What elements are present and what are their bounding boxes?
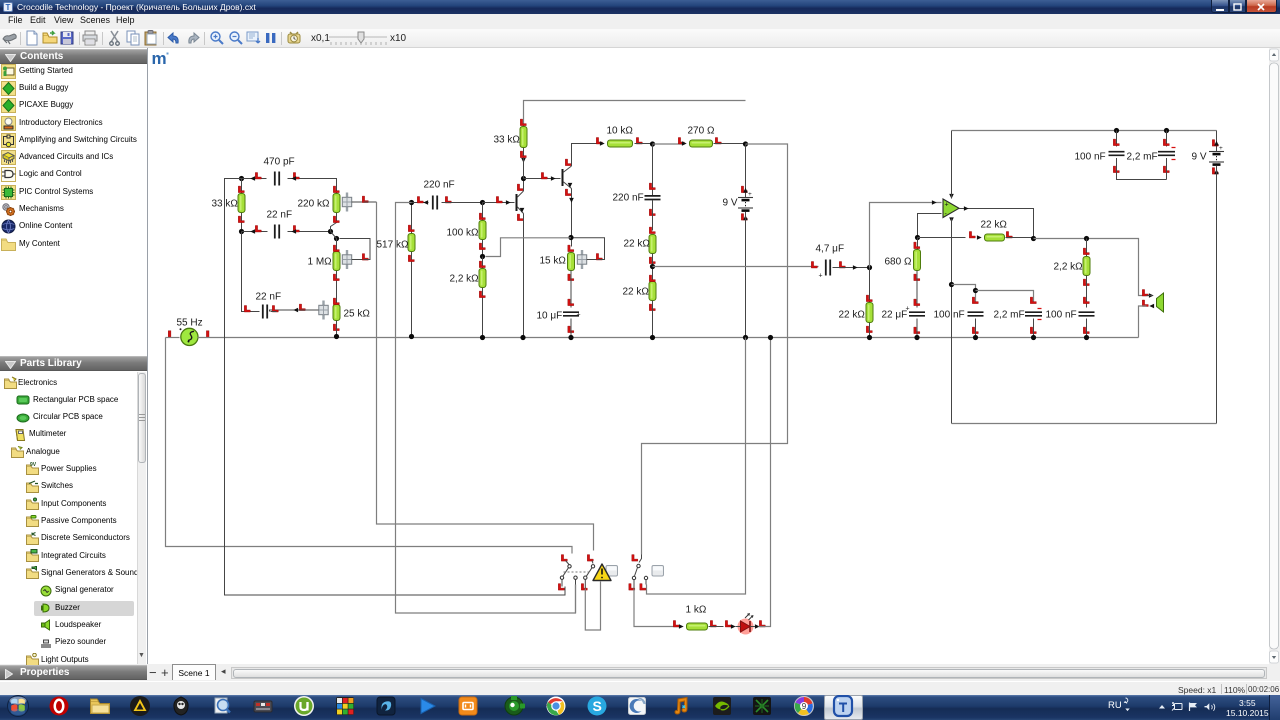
svg-text:22 kΩ: 22 kΩ (623, 287, 650, 298)
wire op-amp output (959, 206, 1034, 238)
label 22 nF (256, 292, 282, 303)
label 2,2 k&#937; (450, 274, 480, 285)
resistor R14 22 k&#937; (866, 268, 873, 341)
node Q (1114, 128, 1119, 133)
wire pot R2 wiper to relay (377, 202, 594, 551)
wire op-amp power bottom (951, 219, 953, 424)
wire mid branch (653, 266, 819, 268)
wire Q2 emitter chain (568, 189, 573, 247)
label 517 k&#937; (377, 240, 409, 251)
resistor R17 2,2 k&#937; (1083, 239, 1090, 308)
resistor R15 22 k&#937; feedback (918, 232, 1034, 242)
svg-text:100 nF: 100 nF (1046, 310, 1077, 321)
label 22 k&#937; (623, 287, 650, 298)
svg-text:33 kΩ: 33 kΩ (494, 135, 521, 146)
resistor R8 33 k&#937; (520, 101, 746, 179)
wire Q2 collector up (572, 144, 597, 167)
label 100 nF (1046, 310, 1077, 321)
svg-text:55 Hz: 55 Hz (177, 318, 203, 329)
label 2,2 mF (994, 310, 1025, 321)
svg-text:220 nF: 220 nF (613, 193, 644, 204)
svg-text:22 kΩ: 22 kΩ (624, 239, 651, 250)
svg-text:9: 9 (802, 702, 807, 711)
wire relay common down (575, 585, 577, 614)
label 220 nF (613, 193, 644, 204)
potentiometer R3 1 M&#937; (333, 239, 370, 305)
wire output to speaker branch (1034, 236, 1147, 296)
relay RL1 (558, 555, 594, 591)
capacitor C10 2,2 mF (1025, 297, 1042, 340)
svg-text:9V: 9V (30, 462, 37, 468)
svg-text:4,7 μF: 4,7 μF (816, 244, 845, 255)
transistor Q2 (563, 159, 573, 196)
node R (1164, 128, 1169, 133)
svg-text:9 V: 9 V (723, 198, 738, 209)
svg-text:517 kΩ: 517 kΩ (377, 240, 409, 251)
battery B1 9 V (738, 144, 753, 338)
capacitor C1 470 pF (242, 172, 337, 192)
label 2,2 k&#937; (1054, 262, 1084, 273)
svg-text:680 Ω: 680 Ω (885, 257, 912, 268)
node G (480, 254, 485, 259)
label 220 k&#937; (298, 199, 330, 210)
label 4,7 &#956;F (816, 244, 845, 255)
resistor R18 1 k&#937; (673, 621, 723, 631)
svg-text:+: + (1219, 145, 1223, 152)
node B (239, 229, 244, 234)
label 1 M&#937; (308, 257, 333, 268)
svg-text:15 kΩ: 15 kΩ (540, 256, 567, 267)
label 25 k&#937; (344, 309, 371, 320)
node K battery bottom rail (743, 335, 748, 340)
svg-text:1 MΩ: 1 MΩ (308, 257, 333, 268)
label 2,2 mF (1127, 152, 1158, 163)
capacitor C3 22 nF (242, 232, 299, 319)
resistor R7 2,2 k&#937; (479, 257, 486, 341)
node D (334, 236, 339, 241)
capacitor C2 22 nF (242, 225, 331, 239)
node H (521, 158, 526, 181)
capacitor C12 100 nF (1109, 131, 1167, 180)
capacitor C13 2,2 mF (1158, 131, 1176, 180)
wire (225, 179, 566, 596)
label 33 k&#937; (212, 199, 239, 210)
svg-text:+: + (819, 273, 823, 280)
wire (166, 337, 180, 339)
wire (653, 143, 685, 145)
wire main ground rail (198, 337, 1139, 339)
label 22 nF (267, 210, 293, 221)
capacitor C5 220 nF (645, 144, 661, 231)
svg-text:22 μF: 22 μF (882, 310, 908, 321)
resistor R5 517 k&#937; (408, 200, 415, 339)
label 22 k&#937; (839, 310, 866, 321)
svg-text:1 kΩ: 1 kΩ (686, 605, 707, 616)
wire base Q2 (524, 173, 561, 181)
svg-text:25 kΩ: 25 kΩ (344, 309, 371, 320)
label 270 &#937; (688, 126, 715, 137)
svg-text:100 kΩ: 100 kΩ (447, 228, 479, 239)
wire (331, 232, 337, 239)
label 470 pF (264, 157, 295, 168)
node A top-left (239, 176, 244, 181)
label 1 k&#937; (686, 605, 707, 616)
svg-text:m: m (152, 49, 167, 68)
resistor R10 270 &#937; (678, 138, 745, 148)
svg-text:2,2 kΩ: 2,2 kΩ (450, 274, 480, 285)
wire bottom filter feed (952, 285, 1034, 304)
node M (867, 265, 872, 270)
wire base Q1 (483, 197, 515, 205)
wire emitter degeneration to node G (486, 238, 572, 257)
wire op-amp minus input (918, 214, 942, 238)
svg-text:S: S (593, 698, 602, 714)
svg-text:10 μF: 10 μF (537, 311, 563, 322)
node J battery top (743, 141, 748, 146)
label 22 k&#937; (981, 220, 1008, 231)
svg-text:100 nF: 100 nF (1075, 152, 1106, 163)
svg-text:220 kΩ: 220 kΩ (298, 199, 330, 210)
resistor R6 100 k&#937; (479, 203, 486, 257)
wire battery rail to switch S2 NC (647, 338, 746, 595)
label 22 k&#937; (624, 239, 651, 250)
node F (480, 200, 485, 205)
LED D1 (725, 613, 765, 635)
signal generator G1 55 Hz (168, 328, 209, 345)
svg-text:100 nF: 100 nF (934, 310, 965, 321)
battery B2 9 V (1209, 131, 1224, 424)
potentiometer R4 25 k&#937; (270, 298, 341, 336)
wire box bottom (952, 423, 1217, 425)
node L (650, 264, 655, 269)
node N (949, 282, 954, 287)
node I (650, 141, 655, 146)
resistor R9 10 k&#937; (596, 138, 652, 148)
wire switch to LED chain (634, 589, 678, 627)
potentiometer R2 220 k&#937; (331, 186, 377, 231)
resistor R11 22 k&#937; (649, 227, 656, 281)
capacitor C8 22 &#956;F (906, 299, 926, 340)
label 33 k&#937; (494, 135, 521, 146)
label 100 k&#937; (447, 228, 479, 239)
svg-text:2,2 kΩ: 2,2 kΩ (1054, 262, 1084, 273)
wire gen-left down to relay NO contact (166, 338, 573, 554)
wire op-amp power top (951, 131, 953, 199)
page label m (152, 49, 169, 68)
transistor Q1 (517, 184, 525, 221)
wire Q1 collector (523, 179, 525, 192)
capacitor C11 100 nF (1079, 312, 1095, 340)
capacitor C6 10 &#956;F (563, 271, 581, 341)
svg-text:2,2 mF: 2,2 mF (1127, 152, 1158, 163)
wire LED to rail (759, 335, 774, 627)
resistor R1 33 k&#937; (238, 179, 245, 232)
relay warning sign (593, 564, 618, 581)
svg-text:22 nF: 22 nF (256, 292, 282, 303)
svg-text:2,2 mF: 2,2 mF (994, 310, 1025, 321)
label 220 nF (424, 180, 455, 191)
wire to op-amp plus input (870, 200, 942, 267)
wire to switch S2 (642, 144, 788, 555)
node E rail (334, 334, 339, 339)
capacitor C7 4,7 &#956;F (811, 260, 869, 280)
label 9 V (1192, 152, 1207, 163)
wire Q1 emitter to rail (520, 214, 525, 341)
resistor R13 15 k&#937; pot (568, 238, 605, 281)
label 680 &#937; (885, 257, 912, 268)
label 100 nF (1075, 152, 1106, 163)
label 15 k&#937; (540, 256, 567, 267)
capacitor C4 220 nF (412, 196, 483, 210)
label 100 nF (934, 310, 965, 321)
svg-text:+: + (945, 202, 949, 209)
node O (915, 235, 920, 240)
svg-text:220 nF: 220 nF (424, 180, 455, 191)
label 55 Hz (177, 318, 203, 329)
wire to relay common (396, 203, 576, 614)
op-amp U1 (943, 194, 959, 222)
svg-text:+: + (577, 312, 581, 319)
capacitor C9 100 nF (968, 297, 984, 340)
svg-text:270 Ω: 270 Ω (688, 126, 715, 137)
resistor R16 680 &#937; (914, 238, 921, 308)
svg-text:9 V: 9 V (1192, 152, 1207, 163)
node P output (1031, 236, 1036, 241)
resistor R12 22 k&#937; (649, 275, 656, 340)
label 10 k&#937; (607, 126, 634, 137)
svg-text:22 nF: 22 nF (267, 210, 293, 221)
label 10 &#956;F (537, 311, 563, 322)
svg-text:22 kΩ: 22 kΩ (839, 310, 866, 321)
svg-text:+: + (748, 191, 752, 198)
node C (328, 229, 333, 234)
svg-text:470 pF: 470 pF (264, 157, 295, 168)
svg-text:33 kΩ: 33 kΩ (212, 199, 239, 210)
wire box top rail (952, 130, 1217, 132)
switch S2 (629, 555, 664, 591)
label 9 V (723, 198, 738, 209)
loudspeaker LS1 (1, 290, 1164, 338)
wire relay coil loop (585, 582, 600, 631)
svg-text:10 kΩ: 10 kΩ (607, 126, 634, 137)
svg-text:22 kΩ: 22 kΩ (981, 220, 1008, 231)
label 22 &#956;F (882, 310, 908, 321)
